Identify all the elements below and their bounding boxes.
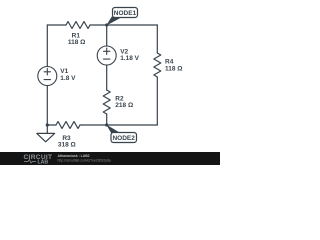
- wire top middle segment R1 to node: [90, 24, 107, 26]
- svg-text:NODE1: NODE1: [114, 10, 137, 17]
- svg-text:118 Ω: 118 Ω: [165, 66, 183, 73]
- svg-text:Athanasiosk : LAB2: Athanasiosk : LAB2: [58, 154, 90, 158]
- wire left vertical upper segment: [46, 25, 48, 67]
- wire right vertical upper segment: [156, 25, 158, 53]
- resistor R3: [56, 122, 80, 149]
- resistor R1: [66, 22, 90, 47]
- wire middle vertical V2 to R2: [106, 65, 108, 90]
- svg-text:1.18 V: 1.18 V: [120, 55, 139, 62]
- node NODE2 label: [111, 133, 137, 143]
- node NODE1 flag pointer: [106, 17, 120, 26]
- node NODE2 flag pointer: [106, 125, 120, 134]
- wire bottom right segment node to corner: [107, 124, 158, 126]
- voltage source V2: [97, 46, 139, 65]
- svg-text:R4: R4: [165, 58, 174, 65]
- wire bottom middle segment R3 to node: [80, 124, 107, 126]
- wire left vertical lower segment: [46, 86, 48, 126]
- junction dot bottom node: [105, 123, 108, 126]
- wire bottom left junction to R3: [47, 124, 56, 126]
- svg-text:http://circuitlab.com/c/7xe236: http://circuitlab.com/c/7xe23632y6a: [58, 158, 111, 162]
- svg-text:118 Ω: 118 Ω: [68, 39, 86, 46]
- footer watermark bar: [0, 152, 220, 166]
- wire middle vertical R2 to bottom node: [106, 114, 108, 125]
- resistor R2: [103, 90, 133, 114]
- svg-text:318 Ω: 318 Ω: [58, 141, 76, 148]
- node NODE1 label: [113, 8, 138, 18]
- resistor R4: [154, 53, 183, 77]
- svg-text:218 Ω: 218 Ω: [115, 102, 133, 109]
- svg-text:LAB: LAB: [38, 160, 49, 166]
- svg-text:NODE2: NODE2: [112, 135, 135, 142]
- wire top-left horizontal segment: [47, 24, 66, 26]
- voltage source V1: [38, 67, 76, 86]
- junction dot left bottom: [46, 123, 49, 126]
- junction dot top node: [105, 23, 108, 26]
- wire top right segment node to corner: [107, 24, 158, 26]
- wire right vertical lower segment: [156, 77, 158, 125]
- wire middle vertical node to V2: [106, 25, 108, 46]
- ground: [37, 125, 55, 142]
- svg-text:1.8 V: 1.8 V: [60, 75, 76, 82]
